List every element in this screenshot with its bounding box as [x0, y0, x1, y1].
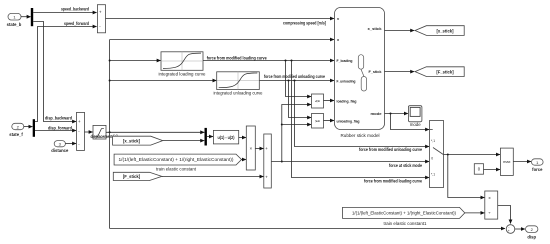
Fcn block u(1) - u(2) [213, 130, 238, 144]
wire switch output to max [444, 154, 501, 156]
svg-text:integrated loading curve: integrated loading curve [159, 71, 207, 76]
wire product to sum3 [255, 148, 263, 150]
wire loading line to LE operator in1 [286, 61, 312, 97]
constant 0 [474, 164, 483, 175]
subsystem Rubber stick model [335, 8, 385, 138]
from tag train elastic constant [114, 154, 241, 165]
divide block (F over k) [485, 191, 498, 219]
node loading line drop 1 [285, 60, 287, 62]
from tag F_stick [113, 172, 162, 180]
inport 1 state_b [7, 13, 22, 27]
sum block Sum3 (force at stick mode) [264, 134, 272, 188]
svg-text:force from modified unloading: force from modified unloading curve [264, 74, 326, 79]
wire mux to Fcn [207, 136, 213, 138]
svg-text:disp_backward: disp_backward [45, 116, 72, 121]
sum block Sum1 (speed difference) [97, 5, 105, 33]
svg-text:+: + [99, 10, 102, 15]
multiport switch [430, 121, 444, 188]
svg-text:<=: <= [315, 99, 320, 104]
outport 1 force [532, 159, 544, 172]
wire divide to sum circle [498, 206, 511, 224]
svg-text:train elastic constant1: train elastic constant1 [384, 221, 428, 226]
svg-text:force from modified loading cu: force from modified loading curve [364, 179, 423, 184]
wire sum circle to outport disp [515, 228, 525, 230]
inport 2 state_f [9, 123, 24, 137]
wire mode output to scope [385, 113, 408, 115]
svg-text:×: × [488, 196, 491, 201]
svg-text:F_stick: F_stick [369, 69, 383, 74]
wire inport2 to bus selector [24, 126, 33, 128]
wire mode to multiport switch control [391, 114, 430, 130]
svg-text:*,1: *,1 [431, 173, 435, 177]
wire distance to sum [65, 143, 76, 145]
node unloading line drop 1 [288, 80, 290, 82]
svg-text:state_f: state_f [9, 132, 23, 137]
svg-text:>=: >= [315, 119, 320, 124]
sum block Sum2 (displacement difference) [77, 112, 85, 150]
node comparator branch junction [281, 124, 283, 126]
wire unloading_flag [324, 120, 335, 122]
wire F_stick to sum3 [162, 176, 264, 178]
wire x input to rubber stick model [110, 39, 334, 41]
wire feedback to GE operator in2 [282, 124, 311, 126]
svg-text:[x_stick]: [x_stick] [123, 138, 141, 143]
sum circle (disp output) [506, 225, 515, 234]
rate limiter block (displacement shaping) [93, 125, 106, 139]
wire disp_forward [35, 130, 76, 132]
wire displacement trunk vertical [109, 40, 111, 229]
outport 2 disp [526, 226, 538, 240]
svg-text:F_loading: F_loading [337, 58, 354, 63]
inport 3 distance [51, 141, 69, 153]
goto tag F_stick [415, 67, 464, 77]
wire elastic constant1 to divide [465, 212, 485, 214]
wire trunk to integrated loading curve [110, 60, 161, 62]
wire compressing speed [m/s] [106, 18, 335, 20]
svg-text:0: 0 [431, 156, 433, 160]
wire loading line to multiport switch in3 [292, 61, 430, 178]
svg-text:max: max [503, 159, 510, 164]
svg-text:[x_stick]: [x_stick] [437, 28, 455, 33]
wire max to outport force [513, 161, 531, 163]
svg-text:[F_stick]: [F_stick] [436, 70, 454, 75]
wire unloading line to GE operator in1 [289, 81, 312, 118]
wire displacement [s] [106, 131, 204, 133]
svg-text:Rubber stick model: Rubber stick model [341, 133, 380, 138]
lookup table integrated unloading curve [214, 72, 264, 96]
svg-text:+: + [265, 174, 268, 179]
svg-text:mode: mode [371, 111, 383, 116]
wire force from modified loading curve [203, 60, 334, 62]
wire speed_backward [33, 12, 96, 14]
minmax block max [500, 148, 513, 175]
wire speed_forward (from lower bus selector up) [35, 27, 97, 122]
node mode junction [390, 113, 392, 115]
wire loading_flag [324, 100, 335, 102]
svg-text:integrated unloading curve: integrated unloading curve [214, 91, 264, 96]
wire displacement bottom line to sum circle [110, 228, 505, 230]
node loading line drop 2 [291, 60, 293, 62]
svg-text:force: force [532, 167, 543, 172]
wire force from modified unloading curve [259, 80, 334, 82]
node trunk-LUT1 junction [109, 60, 111, 62]
svg-text:1/(1/(left_ElasticConstant) +: 1/(1/(left_ElasticConstant) + 1/(right_E… [352, 211, 457, 216]
wire Fcn to product [239, 137, 246, 139]
svg-text:mode: mode [410, 122, 422, 127]
svg-text:distance: distance [51, 148, 69, 153]
svg-text:1/(1/(left_ElasticConstant) +: 1/(1/(left_ElasticConstant) + 1/(right_E… [119, 157, 235, 162]
node trunk-LUT2 junction [109, 80, 111, 82]
svg-text:state_b: state_b [7, 22, 22, 27]
svg-text:x_stick: x_stick [368, 26, 383, 31]
wire force at stick mode (sum3 out to switch in2) [271, 161, 429, 163]
wire F_stick output [385, 71, 415, 73]
node displacement junction [109, 131, 111, 133]
wire switch output down to divide [448, 155, 485, 198]
relational operator LE [312, 94, 324, 108]
goto tag x_stick [415, 26, 464, 36]
wire trunk to integrated unloading curve [110, 80, 217, 82]
svg-text:+: + [508, 229, 510, 233]
svg-text:×: × [249, 146, 252, 151]
svg-text:force at stick mode: force at stick mode [389, 163, 423, 168]
svg-text:[F_stick]: [F_stick] [123, 174, 141, 179]
svg-text:train elastic constant: train elastic constant [156, 166, 197, 171]
node stick force feedback junction [281, 161, 283, 163]
node unloading line drop 2 [294, 80, 296, 82]
wire x_stick to mux [163, 140, 205, 142]
bus selector 2 [33, 119, 35, 137]
lookup table integrated loading curve [159, 52, 207, 77]
relational operator GE [312, 114, 324, 129]
wire inport1 to bus selector [21, 16, 31, 18]
product block (k times dx) [246, 126, 255, 170]
svg-text:unloading_flag: unloading_flag [337, 119, 361, 124]
svg-text:force from modified loading cu: force from modified loading curve [207, 55, 268, 60]
mux [205, 128, 207, 146]
wire sum2 to rate limiter [85, 131, 93, 133]
wire unloading line to multiport switch in1 [295, 81, 430, 147]
svg-text:speed_backward: speed_backward [61, 7, 89, 12]
node switch output junction [447, 154, 449, 156]
wire x_stick output [385, 30, 415, 32]
wire disp_backward (from top bus selector down) [33, 22, 76, 122]
svg-text:force from modified unloading: force from modified unloading curve [359, 147, 423, 152]
svg-text:F_unloading: F_unloading [337, 79, 356, 84]
wire elastic constant to product [242, 159, 246, 161]
scope mode [408, 106, 422, 128]
svg-text:*,1: *,1 [431, 139, 435, 143]
wire stick force feedback up to comparators [282, 105, 311, 162]
svg-text:+: + [265, 146, 268, 151]
svg-text:disp: disp [527, 234, 536, 239]
wire constant to max [484, 169, 501, 171]
from tag x_stick [113, 136, 163, 145]
svg-text:loading_flag: loading_flag [337, 99, 358, 104]
svg-text:disp_forward: disp_forward [48, 126, 72, 131]
svg-text:speed_forward: speed_forward [64, 21, 89, 26]
svg-text:+: + [78, 119, 81, 124]
svg-text:compressing speed [m/s]: compressing speed [m/s] [283, 20, 327, 25]
from tag train elastic constant1 [343, 207, 465, 218]
bus selector 1 [31, 8, 33, 26]
svg-text:u(1) - u(2): u(1) - u(2) [218, 135, 236, 140]
